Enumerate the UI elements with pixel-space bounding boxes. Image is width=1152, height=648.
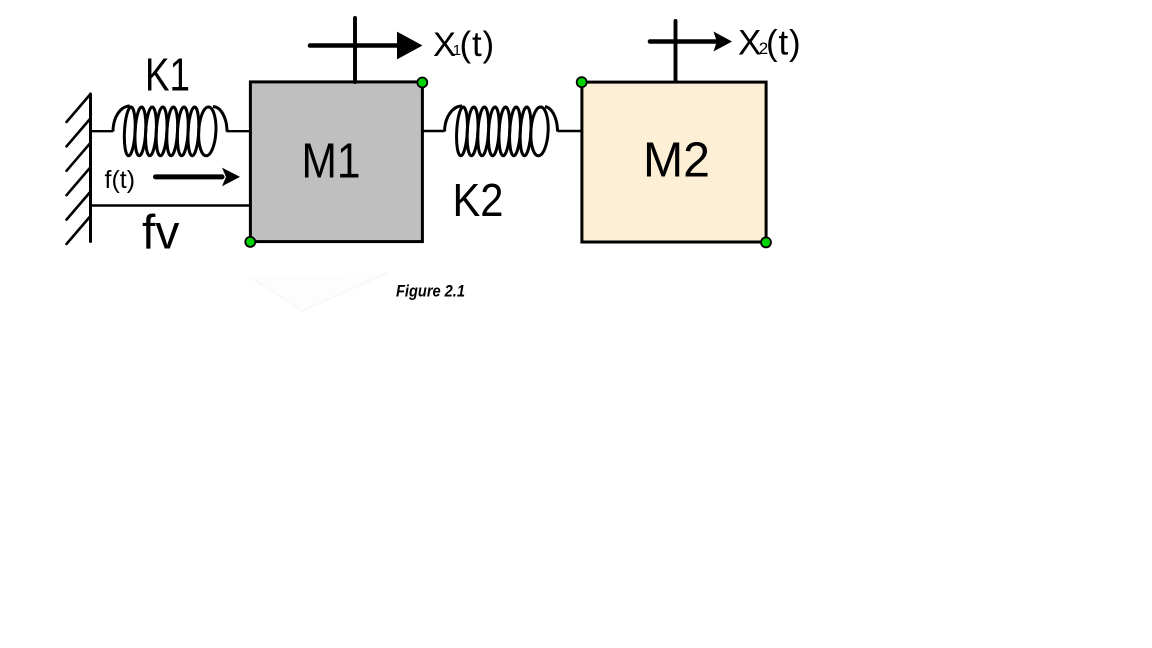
label fv [142, 207, 179, 260]
caption Figure 2.1 [396, 282, 465, 300]
wire spring K1 to mass M1 [227, 130, 252, 132]
node M1 top-right [417, 78, 427, 88]
smudge artifact [250, 273, 387, 311]
force f(t) arrow [156, 168, 241, 187]
svg-text:f(t): f(t) [105, 166, 136, 194]
node M1 bottom-left [245, 237, 255, 247]
wire wall to spring K1 [91, 130, 114, 132]
node M2 top-left [577, 77, 587, 87]
svg-text:K1: K1 [145, 49, 190, 101]
X2 reference line [674, 21, 678, 81]
X2 displacement arrow [650, 32, 732, 52]
label K2 [453, 174, 504, 226]
svg-text:(t): (t) [460, 25, 495, 64]
label X1(t) [433, 25, 495, 64]
svg-text:M2: M2 [643, 133, 710, 188]
wire mass M1 to spring K2 [422, 130, 445, 132]
damper fv wire [91, 204, 252, 206]
spring K1 [113, 106, 227, 156]
mass M1 [250, 82, 422, 242]
svg-text:Figure 2.1: Figure 2.1 [396, 282, 465, 300]
svg-text:M1: M1 [302, 135, 361, 189]
X1 displacement arrow [310, 32, 423, 60]
label K1 [145, 49, 190, 101]
label X2(t) [738, 23, 801, 62]
node M2 bottom-right [761, 237, 771, 247]
svg-text:(t): (t) [766, 24, 801, 63]
force f(t) label [105, 166, 136, 194]
label M2 [643, 133, 710, 188]
spring K2 [445, 106, 558, 156]
label M1 [302, 135, 361, 189]
mass M2 [582, 82, 766, 242]
wire spring K2 to mass M2 [558, 130, 583, 132]
X1 reference line [353, 18, 357, 82]
svg-text:fv: fv [142, 207, 179, 260]
wall [67, 94, 91, 244]
svg-text:K2: K2 [453, 174, 504, 226]
